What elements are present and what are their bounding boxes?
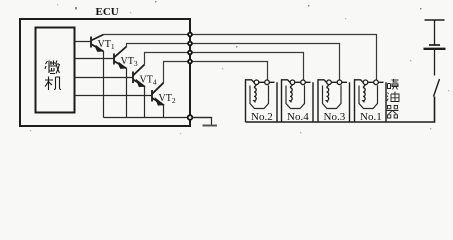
injector No.1 xyxy=(355,80,387,123)
VT4 collector riser and bus wire to pin3 and injector No.4 xyxy=(145,53,304,81)
microcomputer box U1 (微机) xyxy=(36,28,75,113)
transistor VT1 xyxy=(91,35,104,52)
injector inner body xyxy=(323,85,342,108)
VT1 collector bus wire to pin1 and injector No.1 xyxy=(104,35,377,81)
injector No.4 xyxy=(282,80,314,123)
VT4 emitter arrow xyxy=(138,81,144,86)
terminal pin (left) xyxy=(254,80,259,85)
common bottom wire from injectors to switch xyxy=(246,97,435,123)
ECU pin 1 xyxy=(188,33,192,37)
terminal pin (left) xyxy=(363,80,368,85)
transistor VT3 xyxy=(114,47,127,69)
机 xyxy=(45,77,53,91)
paper noise specks xyxy=(30,1,449,134)
ECU pin 4 xyxy=(188,60,192,64)
ground node on ECU edge xyxy=(188,115,193,120)
VT3 emitter arrow xyxy=(119,63,125,68)
battery plate (+) thick xyxy=(424,48,446,50)
VT2 collector riser and bus wire to pin4 and injector No.2 xyxy=(164,62,268,84)
solenoid coil winding xyxy=(290,85,293,103)
injector No.3 xyxy=(318,80,350,123)
battery GB xyxy=(424,20,446,76)
battery plate (-) short xyxy=(429,44,440,46)
base wire to VT3 xyxy=(75,58,115,60)
injector housing outline xyxy=(282,80,314,122)
injector housing outline xyxy=(355,80,387,122)
喷油器 label (hand-drawn glyphs) xyxy=(387,79,400,118)
wire battery internal lead xyxy=(434,20,436,45)
微 xyxy=(45,61,49,74)
ECU pin 2 xyxy=(188,42,192,46)
solenoid coil winding xyxy=(363,85,366,103)
transistor VT4 xyxy=(133,65,145,87)
微机 text (hand-drawn glyphs) xyxy=(45,61,61,91)
solenoid coil winding xyxy=(327,85,330,103)
wire VT1 emitter drop xyxy=(103,52,105,118)
injector inner body xyxy=(250,85,269,108)
terminal pin (right) xyxy=(265,80,270,85)
terminal pin (left) xyxy=(290,80,295,85)
器 xyxy=(387,106,399,119)
base wire to VT2 xyxy=(75,95,153,97)
terminal pin (right) xyxy=(301,80,306,85)
injector inner body xyxy=(359,85,378,108)
油 xyxy=(387,92,399,102)
injector housing outline xyxy=(246,80,278,122)
wire battery to switch xyxy=(434,49,436,76)
VT3 collector riser and bus wire to pin2 and injector No.3 xyxy=(127,44,340,81)
common emitter rail wire xyxy=(104,117,212,119)
base wire to VT1 xyxy=(75,41,92,43)
ground wire xyxy=(192,118,211,126)
base wire to VT4 xyxy=(75,77,134,79)
ECU pin 3 xyxy=(188,51,192,55)
svg-text:ECU: ECU xyxy=(96,6,119,18)
injector inner body xyxy=(286,85,305,108)
solenoid coil winding xyxy=(254,85,257,103)
transistor VT2 xyxy=(152,83,164,105)
terminal pin (left) xyxy=(327,80,332,85)
battery plate (+) top xyxy=(425,19,445,21)
ground symbol xyxy=(203,125,218,127)
injector housing outline xyxy=(318,80,350,122)
terminal pin (right) xyxy=(374,80,379,85)
VT1 emitter arrow xyxy=(96,46,102,51)
ignition switch S xyxy=(434,79,440,97)
injector No.2 xyxy=(246,80,278,123)
ECU box xyxy=(20,19,190,126)
喷 xyxy=(388,79,399,90)
terminal pin (right) xyxy=(337,80,342,85)
wire VT2 emitter drop xyxy=(163,105,165,118)
wire VT4 emitter drop xyxy=(144,87,146,118)
wire VT3 emitter drop xyxy=(126,69,128,118)
VT2 emitter arrow xyxy=(157,100,163,105)
